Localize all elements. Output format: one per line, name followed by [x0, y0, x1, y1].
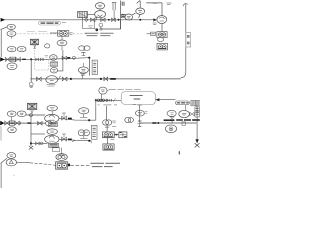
label VENT WHEN: [117, 88, 140, 90]
wire riser to pipe3: [88, 58, 90, 76]
leader curve: [107, 89, 116, 90]
box column right: [195, 107, 200, 112]
label under pump: [153, 23, 157, 25]
wire faint dashed signal: [16, 33, 87, 35]
drain arrow right: [195, 139, 198, 143]
bubble 2Ba: [7, 111, 16, 117]
wire line y100 fittings: [96, 99, 121, 101]
node dark dash h1pre: [22, 58, 26, 60]
right column bubble: [167, 110, 176, 116]
node dot line2: [88, 119, 90, 121]
valve bowtie p3a: [36, 77, 41, 81]
center box B plus: [119, 132, 127, 138]
filter box F1: [78, 12, 88, 18]
wire tall right pipe: [181, 4, 186, 78]
bubble row y48 b: [17, 46, 26, 51]
node wedge header1: [0, 57, 4, 61]
label pill right: [175, 101, 189, 105]
wire branch to group2: [31, 133, 45, 135]
blower box rollers: [58, 31, 69, 37]
valve bowtie g1: [62, 116, 67, 120]
bubble A bottom: [6, 159, 16, 166]
bubble row y48 a: [7, 46, 16, 51]
bubble FO: [78, 67, 88, 73]
wire pump to units: [161, 24, 163, 32]
bubble 7B under h2: [8, 127, 17, 133]
wire diagonal to left edge: [1, 158, 7, 188]
inline valve tall box: [186, 33, 191, 47]
valve bowtie p3b: [62, 77, 67, 81]
instrument dual-bar LG: [112, 2, 116, 19]
motor M1 bubble: [95, 3, 104, 9]
valve bowtie h1e: [62, 56, 66, 60]
valve bowtie h1a: [5, 57, 10, 61]
wire pipe3 long: [30, 78, 180, 80]
double circle bubble: [165, 125, 176, 133]
node loop blob: [95, 28, 98, 31]
valve bowtie h1b: [16, 57, 21, 61]
fan X-box unit 2: [27, 103, 36, 109]
bubble pair y48 d: [84, 46, 90, 51]
label right of blower: [70, 33, 73, 35]
wire top header pipe: [1, 19, 154, 21]
node tick h2: [19, 122, 21, 125]
node feed arrow: [1, 18, 6, 22]
valve diamond chain: [105, 99, 108, 102]
valve vertical rc: [170, 117, 174, 121]
node dot p3: [70, 78, 72, 80]
bubble M over line: [79, 108, 89, 114]
valve bowtie l3: [35, 142, 39, 145]
small box below labels: [182, 122, 186, 125]
group2 main ellipse: [45, 135, 59, 143]
group2 bracket box: [52, 148, 60, 151]
slash fitting: [113, 98, 115, 101]
pump box bottom: [56, 162, 68, 169]
balloon CLOSED: [121, 92, 155, 105]
tee instrument: [81, 52, 85, 55]
group1 dark box: [49, 122, 58, 126]
node circle l3: [40, 142, 43, 145]
node dark dash p3: [110, 78, 116, 80]
node dark dash y123: [152, 122, 156, 124]
bubble pair y48 c: [79, 46, 85, 51]
node junction low: [30, 142, 32, 144]
wire riser x106: [105, 106, 107, 120]
node dot p3b: [100, 78, 102, 80]
wire dashed riser: [34, 50, 36, 59]
valve bowtie h2c: [38, 121, 43, 125]
node dark dash: [67, 57, 70, 59]
valve bowtie V2: [101, 18, 105, 22]
wire col1 link: [58, 50, 63, 71]
bubble end h2: [46, 121, 52, 126]
pump arrow feed: [153, 18, 157, 21]
wire header2: [1, 122, 46, 124]
wire top right branch: [146, 3, 162, 16]
bubble pair 2A: [125, 117, 131, 122]
center box C rollers: [103, 144, 114, 150]
label loop text: [88, 26, 93, 27]
pump P2 circle: [157, 16, 167, 24]
bubble pair over g2: [78, 130, 84, 136]
wire riser x120: [120, 1, 122, 30]
group2 top bubble: [47, 129, 57, 135]
node riser junction dot: [95, 99, 97, 101]
seal loop wire: [101, 20, 121, 29]
drain X right: [195, 143, 200, 147]
right unit bubble: [157, 38, 163, 42]
label N pipe spec: [98, 104, 117, 106]
tiny dot left: [13, 175, 14, 176]
right unit box with rollers A: [157, 32, 167, 38]
node dot V3pre: [108, 19, 110, 21]
valve bowtie h1d: [40, 58, 43, 61]
bubble PI-105: [7, 31, 16, 37]
node dark blob g1: [68, 118, 72, 120]
valve bowtie g2: [62, 137, 67, 141]
pump ellipse bottom: [56, 154, 67, 161]
right unit box with rollers B: [157, 43, 167, 50]
dashed enclosure: [35, 60, 49, 70]
bubble col1 top: [50, 55, 57, 61]
paired boxes right: [191, 101, 196, 106]
fitting chain circles: [97, 99, 99, 101]
wire line3: [31, 142, 48, 144]
group1 top bubble: [47, 105, 57, 111]
wire group2 out: [59, 139, 91, 141]
label remote setpoint: [90, 163, 120, 166]
tiny mark right: [178, 151, 180, 154]
valve box h2: [10, 121, 15, 125]
dark label row left: [164, 119, 175, 121]
wire riser x95.8: [95, 100, 97, 120]
label faint text: [27, 31, 47, 33]
group2 dark box: [49, 143, 59, 147]
bubble 2Bb: [17, 111, 26, 117]
wire group1 out: [59, 118, 96, 120]
tee vent p3: [81, 75, 84, 79]
bubble 86 bottom: [7, 153, 16, 159]
center box A rollers: [103, 132, 115, 138]
bubble under blower: [57, 40, 67, 46]
bubble under h1: [7, 63, 17, 70]
valve bowtie V3: [112, 18, 116, 22]
valve bowtie p3c: [104, 77, 108, 81]
node dark blob g2: [68, 138, 72, 140]
bubble on riser: [136, 110, 145, 116]
node small circle: [73, 56, 76, 59]
vent circle symbol: [29, 82, 33, 86]
dark label row right b: [192, 119, 200, 121]
fan X-box unit: [30, 39, 38, 45]
node wedge header2: [0, 121, 4, 126]
arrow into balloon: [156, 99, 176, 101]
valve bowtie h2a: [5, 121, 9, 125]
bubble PI-17: [7, 24, 15, 29]
wire center col: [106, 125, 108, 132]
center tick top: [105, 126, 109, 128]
motor bubble M2: [136, 8, 145, 14]
wire dashed setpoint line: [17, 161, 31, 163]
big bubble right: [179, 110, 190, 117]
bubble 7A: [99, 87, 107, 94]
node dot g2: [88, 140, 90, 142]
node junction h1 right: [88, 57, 90, 59]
wire M2 leader: [132, 1, 140, 18]
wire dash-dot right: [70, 164, 89, 166]
bubble small mid: [45, 44, 50, 48]
node junction h1: [30, 58, 32, 60]
valve stem tick: [95, 17, 97, 20]
col1 hatched box: [50, 62, 57, 66]
wire header1: [1, 58, 89, 60]
wire A to B: [114, 134, 119, 136]
label box tall 2: [91, 125, 97, 139]
wire right drop: [196, 106, 198, 140]
node dark dash h2: [27, 122, 30, 124]
node junction dot: [118, 19, 120, 21]
node dot on pipe: [139, 19, 141, 21]
valve bowtie h1c: [36, 58, 39, 61]
valve bowtie rc2: [190, 112, 194, 116]
node top hook: [183, 4, 188, 7]
node junction line1: [30, 114, 33, 117]
wire riser mid x139.7: [138, 105, 142, 127]
label pill 17dB: [39, 21, 67, 25]
node black nub: [68, 164, 70, 167]
drain X: [29, 146, 33, 150]
label tiny text marks: [153, 3, 172, 5]
wire line1 y115: [26, 114, 45, 116]
right unit small box: [151, 32, 156, 35]
wire 2B stem: [11, 117, 13, 121]
label sequence text block: [85, 33, 114, 35]
instrument bubble L2: [125, 14, 133, 20]
node tick pair: [122, 2, 124, 6]
group1 main ellipse: [45, 114, 59, 122]
valve box h1: [10, 57, 15, 62]
col1 bubble low: [50, 67, 57, 73]
arrow tick g2: [72, 140, 75, 141]
wire long vertical drop: [30, 115, 32, 146]
bubble FO p3: [46, 76, 58, 84]
bubble pair mid low: [103, 120, 109, 125]
node dot y123: [157, 122, 159, 124]
wire left edge riser: [1, 27, 7, 57]
wire filter to pump: [83, 14, 95, 19]
valve bowtie h2b: [15, 121, 19, 125]
valve bowtie V1: [91, 18, 95, 22]
wire line y123 right: [140, 122, 197, 124]
seal pot omega: [99, 23, 103, 27]
valve diamond on top pipe: [85, 18, 89, 21]
wire B stem down: [107, 138, 109, 144]
wire drop from h1 junction: [30, 59, 32, 82]
wire small loop under pipe: [83, 20, 96, 29]
slash mark: [58, 76, 61, 80]
pump P1 body: [95, 11, 106, 18]
valve block dark: [121, 14, 125, 17]
label box tall: [92, 60, 97, 75]
wire left stub lower: [0, 126, 2, 140]
dark label row right a: [176, 119, 191, 121]
